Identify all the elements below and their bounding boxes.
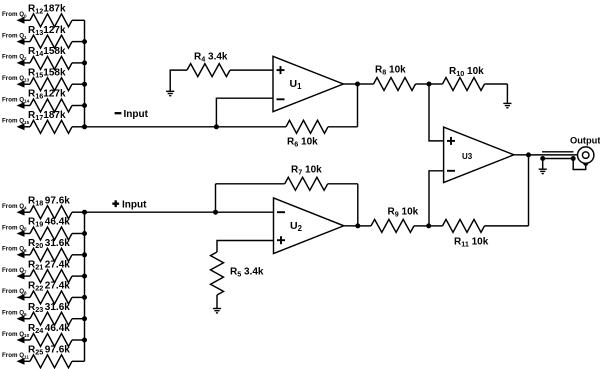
svg-text:R1946.4k: R1946.4k	[28, 217, 70, 229]
junction minus bus row 5	[82, 103, 87, 108]
svg-text:R6 10k: R6 10k	[287, 137, 318, 149]
svg-text:From Q7: From Q7	[2, 267, 27, 274]
ground at R10	[503, 102, 511, 104]
svg-text:From Q8: From Q8	[2, 288, 27, 295]
resistor R7	[216, 177, 358, 190]
svg-text:R17187k: R17187k	[28, 110, 66, 122]
svg-text:Output: Output	[570, 136, 600, 146]
svg-text:R1897.6k: R1897.6k	[28, 195, 70, 207]
input arrow from Q5	[17, 230, 31, 237]
op-amp U2	[274, 198, 344, 254]
wire U3 inverting input	[429, 171, 444, 226]
wire R7 right vertical	[357, 184, 359, 226]
resistor R4	[187, 64, 273, 77]
ground at output shield	[539, 168, 547, 170]
junction plus bus row 4	[82, 274, 87, 279]
connector J1 output jack	[578, 147, 594, 163]
junction shield left	[540, 156, 545, 161]
resistor R6	[286, 120, 358, 133]
U1 minus pin mark	[277, 98, 285, 100]
input arrow from Q11	[17, 358, 31, 365]
junction plus bus row 3	[82, 252, 87, 257]
node + Input label	[112, 200, 147, 211]
wire U2 output	[344, 225, 358, 227]
svg-text:R11 10k: R11 10k	[454, 236, 489, 248]
wire U1 inverting input tap	[216, 98, 273, 127]
junction minus bus row 6	[82, 124, 87, 129]
junction plus bus row 6	[82, 316, 87, 321]
svg-text:From Q2: From Q2	[2, 54, 27, 61]
resistor R25	[30, 355, 85, 368]
wire U3 feedback vertical	[528, 155, 530, 226]
op-amp U3	[444, 127, 514, 183]
wire coax shield bottom	[543, 158, 574, 160]
resistor R5	[211, 252, 224, 309]
junction R9 R11 node	[426, 223, 431, 228]
junction plus bus row 1	[82, 210, 87, 215]
svg-text:Input: Input	[124, 109, 149, 120]
node - Input label	[115, 109, 149, 120]
input arrow from Q14	[17, 102, 31, 109]
junction plus bus row 5	[82, 295, 87, 300]
input arrow from Q1	[17, 38, 31, 45]
svg-text:U3: U3	[462, 152, 473, 161]
svg-text:R16127k: R16127k	[28, 89, 66, 101]
junction minus bus row 4	[82, 82, 87, 87]
resistor R10	[429, 78, 507, 91]
svg-text:R13127k: R13127k	[28, 25, 66, 37]
junction R8 R10 node	[427, 82, 432, 87]
resistor R24	[30, 334, 85, 347]
wire output signal	[529, 154, 583, 156]
resistor R20	[30, 248, 85, 261]
resistor R23	[30, 312, 85, 325]
svg-text:R15158k: R15158k	[28, 67, 66, 79]
junction plus input node	[213, 210, 218, 215]
resistor R19	[30, 227, 85, 240]
input arrow from Q9	[17, 315, 31, 322]
U3 minus pin mark	[447, 170, 455, 172]
svg-text:R14158k: R14158k	[28, 46, 66, 58]
wire R10 to ground	[506, 84, 508, 103]
U1 plus pin mark	[277, 69, 285, 71]
resistor R9	[358, 219, 429, 232]
wire U2 noninverting input	[217, 241, 274, 253]
svg-text:R2227.4k: R2227.4k	[28, 281, 70, 293]
junction plus bus row 2	[82, 231, 87, 236]
input arrow from Q7	[17, 273, 31, 280]
junction minus bus row 2	[82, 39, 87, 44]
svg-text:R2597.6k: R2597.6k	[28, 345, 70, 357]
svg-text:R9 10k: R9 10k	[388, 206, 419, 218]
U2 minus pin mark	[277, 211, 285, 213]
resistor R14	[30, 56, 85, 69]
wire U1 feedback vertical	[357, 84, 359, 127]
svg-text:From Q5: From Q5	[2, 224, 27, 231]
resistor R8	[358, 78, 430, 91]
svg-text:R12187k: R12187k	[28, 4, 66, 16]
svg-text:R2331.6k: R2331.6k	[28, 302, 70, 314]
resistor R13	[30, 35, 85, 48]
input arrow from Q15	[17, 123, 31, 130]
resistor R16	[30, 99, 85, 112]
junction minus input node	[214, 124, 219, 129]
input arrow from Q0	[17, 17, 31, 24]
svg-text:From Q9: From Q9	[2, 310, 27, 317]
input arrow from Q13	[17, 81, 31, 88]
wire plus-summing bus vertical	[84, 212, 86, 361]
U2 plus pin mark	[277, 239, 285, 241]
svg-text:R2031.6k: R2031.6k	[28, 238, 70, 250]
input arrow from Q10	[17, 337, 31, 344]
svg-text:From Q1: From Q1	[2, 32, 27, 39]
input arrow from Q2	[17, 60, 31, 67]
junction U1 output node	[355, 82, 360, 87]
ground at R4	[166, 90, 174, 92]
wire U3 output	[514, 154, 529, 156]
junction minus bus row 3	[82, 60, 87, 65]
svg-text:Input: Input	[122, 200, 147, 211]
wire shield to ground	[542, 159, 544, 170]
input arrow from Q4	[17, 209, 31, 216]
svg-text:From Q6: From Q6	[2, 246, 27, 253]
junction jack body	[583, 161, 588, 166]
resistor R11	[429, 219, 529, 232]
junction output node	[526, 152, 531, 157]
U3 plus pin mark	[447, 140, 455, 142]
junction U2 output node	[355, 223, 360, 228]
resistor R12	[30, 14, 85, 27]
wire shield to jack body	[573, 159, 586, 170]
svg-text:R8 10k: R8 10k	[375, 64, 406, 76]
op-amp U1	[273, 56, 343, 111]
wire coax shield top	[542, 151, 574, 153]
wire U3 noninverting input	[429, 84, 444, 141]
wire R4 ground lead	[170, 70, 187, 91]
svg-text:R2446.4k: R2446.4k	[28, 323, 70, 335]
wire plus input bus horizontal	[85, 211, 274, 213]
wire minus-summing bus vertical	[84, 20, 86, 127]
resistor R21	[30, 270, 85, 283]
resistor R17	[30, 120, 85, 133]
svg-text:R5 3.4k: R5 3.4k	[230, 267, 264, 279]
input arrow from Q8	[17, 294, 31, 301]
svg-text:R4 3.4k: R4 3.4k	[194, 51, 228, 63]
svg-text:From Q4: From Q4	[2, 203, 27, 210]
svg-text:R10 10k: R10 10k	[449, 66, 484, 78]
ground at R5	[213, 308, 221, 310]
resistor R15	[30, 78, 85, 91]
wire U1 output	[343, 83, 357, 85]
resistor R22	[30, 291, 85, 304]
wire R7 left vertical	[215, 184, 217, 212]
svg-text:R7 10k: R7 10k	[291, 165, 322, 177]
resistor R18	[30, 206, 85, 219]
wire minus input bus horizontal	[85, 126, 287, 128]
svg-text:From Q0: From Q0	[2, 11, 27, 18]
input arrow from Q6	[17, 251, 31, 258]
junction plus bus row 7	[82, 338, 87, 343]
svg-text:R2127.4k: R2127.4k	[28, 259, 70, 271]
junction shield right	[571, 156, 576, 161]
